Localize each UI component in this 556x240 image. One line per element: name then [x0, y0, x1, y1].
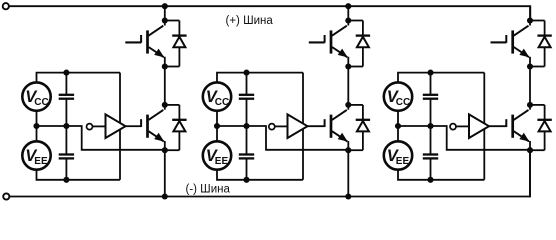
transistor Q2 lower IGBT	[141, 105, 165, 150]
label (+) Шина	[226, 15, 274, 27]
node lower collector block3	[527, 102, 533, 108]
node cap C2 bottom	[63, 177, 69, 183]
transistor Q4 lower IGBT	[325, 105, 349, 150]
label (-) Шина	[186, 183, 231, 195]
diode D4 lower freewheel	[348, 105, 370, 150]
node cap C6 bottom	[427, 177, 433, 183]
source VEE1	[22, 141, 50, 169]
wire (+) bus to upper collector block1	[164, 6, 166, 20]
wire upper gate stub block1	[125, 41, 141, 43]
terminal driver input block1	[87, 124, 93, 130]
svg-text:CC: CC	[215, 97, 229, 108]
capacitor C2	[59, 126, 74, 180]
node upper emitter block2	[345, 63, 351, 69]
wire upper gate stub block3	[491, 41, 507, 43]
svg-text:EE: EE	[396, 156, 410, 167]
transistor Q6 lower IGBT	[506, 105, 530, 150]
diode D2 lower freewheel	[165, 105, 187, 150]
node cap C1 top	[63, 70, 69, 76]
wire Vee top lead block1	[36, 126, 38, 142]
terminal driver input block2	[269, 124, 275, 130]
wire Vcc rail block2	[217, 73, 303, 83]
svg-text:EE: EE	[34, 156, 48, 167]
node upper collector block2	[345, 17, 351, 23]
source VCC3	[384, 82, 412, 110]
wire (-) bus right rise	[529, 149, 531, 197]
node lower emitter block3	[527, 147, 533, 153]
svg-text:CC: CC	[396, 97, 410, 108]
wire Vcc rail block1	[37, 73, 121, 83]
terminal driver input block3	[450, 124, 456, 130]
wire mid rail / emitter return block3	[398, 110, 530, 150]
wire (-) bus	[10, 196, 530, 198]
wire (+) bus	[9, 5, 530, 7]
wire lower emitter to (-) bus block2	[347, 150, 349, 196]
diode D1 upper freewheel	[165, 21, 187, 67]
terminal (+) bus input	[3, 3, 9, 9]
source VEE3	[384, 141, 412, 169]
node (-) bus junction block2	[345, 193, 351, 199]
wire driver supply vertical block1	[119, 73, 121, 180]
wire phase midpoint block1	[164, 67, 166, 105]
node cap C5 top	[427, 70, 433, 76]
wire phase midpoint block3	[529, 67, 531, 105]
svg-text:EE: EE	[215, 156, 229, 167]
op-amp driver U3	[469, 114, 489, 138]
wire driver supply vertical block2	[302, 73, 304, 180]
source VCC1	[22, 82, 50, 110]
capacitor C5	[423, 73, 438, 126]
node cap junction mid block2	[243, 123, 249, 129]
node cap junction mid block3	[427, 123, 433, 129]
op-amp driver U2	[288, 114, 308, 138]
wire (+) bus right drop	[529, 5, 531, 21]
node cap C3 top	[243, 70, 249, 76]
wire Vee rail block3	[398, 169, 484, 180]
wire Vcc rail block3	[398, 73, 484, 83]
node Vcc/Vee junction block3	[395, 123, 401, 129]
node lower collector block2	[345, 102, 351, 108]
wire driver output block1	[126, 125, 142, 127]
node Vcc/Vee junction block1	[33, 123, 39, 129]
wire driver output block2	[308, 125, 325, 127]
diode D5 upper freewheel	[530, 21, 552, 67]
node Vcc/Vee junction block2	[214, 123, 220, 129]
wire Vee top lead block3	[397, 126, 399, 142]
svg-text:CC: CC	[34, 97, 48, 108]
node cap junction mid block1	[63, 123, 69, 129]
transistor Q3 upper IGBT	[325, 21, 349, 67]
node upper emitter block1	[162, 63, 168, 69]
svg-text:(-) Шина: (-) Шина	[186, 183, 231, 195]
wire mid rail / emitter return block1	[37, 110, 165, 150]
node upper collector block1	[162, 17, 168, 23]
wire driver supply vertical block3	[483, 73, 485, 180]
node upper emitter block3	[527, 63, 533, 69]
wire upper gate stub block2	[309, 41, 325, 43]
wire Vee rail block1	[37, 169, 121, 180]
node cap C4 bottom	[243, 177, 249, 183]
transistor Q1 upper IGBT	[141, 21, 165, 67]
capacitor C6	[423, 126, 438, 180]
source VCC2	[203, 82, 231, 110]
diode D6 lower freewheel	[530, 105, 552, 150]
op-amp driver U1	[106, 114, 126, 138]
svg-text:(+) Шина: (+) Шина	[226, 15, 274, 27]
transistor Q5 upper IGBT	[506, 21, 530, 67]
wire driver input block2	[275, 125, 288, 127]
node upper collector block3	[527, 17, 533, 23]
node (-) bus junction block1	[162, 193, 168, 199]
wire (+) bus to upper collector block3	[529, 6, 531, 20]
diode D3 upper freewheel	[348, 21, 370, 67]
wire Vee rail block2	[217, 169, 303, 180]
wire driver input block3	[456, 125, 469, 127]
node lower collector block1	[162, 102, 168, 108]
wire driver input block1	[93, 125, 106, 127]
terminal (-) bus input	[3, 193, 9, 199]
capacitor C1	[59, 73, 74, 126]
node (+) bus junction block2	[345, 3, 351, 9]
wire mid rail / emitter return block2	[217, 110, 348, 150]
wire phase midpoint block2	[347, 67, 349, 105]
node (+) bus junction block1	[162, 3, 168, 9]
wire (+) bus to upper collector block2	[347, 6, 349, 20]
node lower emitter block2	[345, 147, 351, 153]
source VEE2	[203, 141, 231, 169]
node lower emitter block1	[162, 147, 168, 153]
wire driver output block3	[489, 125, 506, 127]
capacitor C4	[239, 126, 254, 180]
wire lower emitter to (-) bus block1	[164, 150, 166, 196]
wire Vee top lead block2	[216, 126, 218, 142]
capacitor C3	[239, 73, 254, 126]
wire lower emitter to (-) bus block3	[529, 150, 531, 196]
